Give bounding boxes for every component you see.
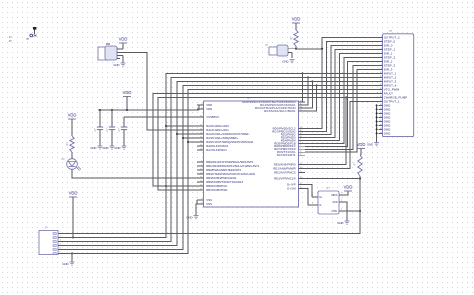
- wire OUTPUT_2 from switch node: [296, 48, 322, 50]
- wire R2 to node: [295, 46, 297, 49]
- svg-text:20: 20: [380, 112, 382, 114]
- svg-text:4: 4: [60, 244, 61, 246]
- svg-text:16: 16: [300, 183, 302, 185]
- svg-text:37: 37: [300, 109, 302, 111]
- svg-text:5: 5: [341, 209, 342, 211]
- svg-text:CTRL: CTRL: [332, 211, 339, 213]
- svg-text:17: 17: [380, 100, 382, 102]
- svg-text:14: 14: [380, 88, 382, 90]
- node RA branch junction 142: [187, 141, 189, 143]
- ground X1: [121, 62, 126, 64]
- wire RA branch at 126: [166, 125, 197, 127]
- power VDD rail symbol: [123, 96, 131, 98]
- power VDD for J1: [69, 196, 77, 198]
- wire MCLR/VPP net (J1 pin1): [63, 179, 360, 234]
- wire VDD stem to rail: [126, 97, 128, 111]
- power VDD for S1 pullup: [292, 22, 300, 24]
- wire U2 GND: [345, 202, 347, 221]
- svg-text:RA2/C2INA+/AN2/DACOUT/VREF-: RA2/C2INA+/AN2/DACOUT/VREF-: [206, 132, 249, 136]
- capacitor C1: [99, 110, 101, 127]
- wire VSS pins tie: [196, 200, 198, 204]
- ground J2 GND bus: [374, 142, 379, 144]
- op-amp U1 microcontroller: [204, 101, 299, 207]
- wire VDD to R1: [360, 149, 362, 155]
- svg-text:38: 38: [300, 127, 302, 129]
- wire INPUT tap net 3: [305, 81, 312, 108]
- wire INPUT tap net 2: [305, 77, 308, 105]
- wire VBUS to VDD: [345, 191, 348, 195]
- svg-text:21: 21: [200, 132, 202, 134]
- svg-text:10: 10: [380, 72, 382, 74]
- svg-text:VSS: VSS: [206, 202, 212, 206]
- wire INPUT tap net 1: [303, 73, 306, 102]
- ground C3: [122, 145, 127, 147]
- node PGC/ICSP junction: [165, 185, 167, 187]
- ground C2: [110, 145, 115, 147]
- svg-text:2: 2: [381, 40, 382, 42]
- svg-text:1: 1: [60, 232, 61, 234]
- svg-text:39: 39: [300, 130, 302, 132]
- power VDD for R1 pullup: [357, 148, 365, 150]
- wire D+ net: [305, 185, 312, 198]
- svg-text:24: 24: [200, 140, 202, 142]
- svg-text:19: 19: [200, 124, 202, 126]
- wire R3 to LED: [71, 152, 73, 159]
- svg-text:RE2/AN7/PMCS: RE2/AN7/PMCS: [274, 170, 296, 174]
- node MCLR pullup: [359, 178, 361, 180]
- svg-text:25: 25: [380, 132, 382, 134]
- node INPUT junction 3: [311, 80, 313, 82]
- svg-text:19: 19: [380, 108, 382, 110]
- wire STEP/DIR fan net 6: [305, 61, 379, 146]
- svg-text:RA1/C12IN1-/AN1: RA1/C12IN1-/AN1: [206, 128, 229, 132]
- svg-text:16: 16: [380, 96, 382, 98]
- transistor S1 pushbutton: [269, 47, 283, 55]
- wire STEP/DIR fan net 5: [305, 57, 379, 143]
- svg-text:3: 3: [60, 240, 61, 242]
- svg-text:15: 15: [380, 92, 382, 94]
- node RA branch junction 138: [182, 137, 184, 139]
- svg-text:RE0/AN5/PMRD: RE0/AN5/PMRD: [274, 162, 296, 166]
- svg-text:RE3/VPP/MCLR: RE3/VPP/MCLR: [274, 176, 296, 180]
- wire VDD to J1 pin2: [72, 197, 74, 238]
- node RA branch junction 134: [176, 133, 178, 135]
- svg-text:VDD: VDD: [123, 90, 132, 95]
- svg-text:35: 35: [300, 103, 302, 105]
- svg-text:26: 26: [300, 167, 302, 169]
- wire X1 GND: [122, 56, 124, 64]
- svg-text:12: 12: [380, 80, 382, 82]
- svg-text:40: 40: [300, 133, 302, 135]
- svg-text:VUSB3V3: VUSB3V3: [206, 115, 219, 119]
- svg-text:VDD: VDD: [69, 190, 78, 195]
- connector J1: [39, 231, 58, 255]
- wire GND bus of J2: [376, 105, 378, 142]
- svg-text:15: 15: [300, 187, 302, 189]
- ground U1 VSS: [194, 215, 199, 217]
- node OUTPUT_2 junction: [321, 48, 323, 50]
- svg-text:RB2/PMA/AN8/CTED1/INT2: RB2/PMA/AN8/CTED1/INT2: [206, 168, 241, 172]
- wire STEP/DIR fan net 8: [305, 69, 379, 152]
- svg-text:VDD: VDD: [344, 184, 353, 189]
- svg-text:GND: GND: [113, 63, 119, 67]
- wire STEP/DIR fan net 4: [305, 53, 379, 140]
- capacitor C2: [111, 110, 113, 127]
- svg-text:18: 18: [300, 177, 302, 179]
- svg-text:GND: GND: [367, 143, 373, 147]
- wire RA branch at 134: [177, 133, 197, 135]
- svg-text:36: 36: [300, 106, 302, 108]
- svg-text:RB1/AN10/PRG/SCK1/SCL1/C12IN3-: RB1/AN10/PRG/SCK1/SCL1/C12IN3-/INT1: [206, 164, 260, 168]
- svg-text:25: 25: [300, 163, 302, 165]
- svg-text:41: 41: [300, 136, 302, 138]
- node RA branch junction 126: [165, 125, 167, 127]
- resistor R2: [294, 30, 298, 46]
- svg-text:RA6/CLKO/OSC2: RA6/CLKO/OSC2: [206, 144, 228, 148]
- svg-text:22: 22: [200, 136, 202, 138]
- svg-text:VBUS: VBUS: [331, 195, 338, 197]
- svg-text:32: 32: [300, 100, 302, 102]
- svg-text:3: 3: [300, 142, 301, 144]
- wire STEP/DIR fan net 1: [305, 41, 379, 131]
- connector J2: [383, 34, 414, 137]
- svg-text:15: 15: [200, 180, 202, 182]
- svg-text:16: 16: [200, 184, 202, 186]
- svg-text:7: 7: [381, 60, 382, 62]
- wire INPUT net 5: [63, 89, 379, 253]
- svg-text:21: 21: [380, 116, 382, 118]
- resistor R1: [358, 155, 362, 176]
- svg-text:RB4/IOCB4/PMD1/AN11: RB4/IOCB4/PMD1/AN11: [206, 176, 237, 180]
- op-amp U2 USB transceiver: [318, 191, 339, 214]
- node rail-C1: [99, 109, 101, 111]
- wire STEP/DIR fan net 3: [305, 49, 379, 137]
- wire S1 to ground: [291, 53, 293, 59]
- wire INPUT net 3: [63, 81, 379, 245]
- svg-text:VDD: VDD: [206, 103, 212, 107]
- svg-text:J?: J?: [389, 29, 392, 33]
- svg-text:6: 6: [381, 56, 382, 58]
- svg-text:GND: GND: [62, 262, 68, 266]
- wire STEP/DIR fan net 7: [305, 65, 379, 149]
- svg-text:VDD: VDD: [206, 107, 212, 111]
- node J1 pin2 VDD: [72, 237, 74, 239]
- svg-text:RB5/IOCB5/T3CKI/T1G/AN13: RB5/IOCB5/T3CKI/T1G/AN13: [206, 180, 243, 184]
- svg-text:3: 3: [381, 44, 382, 46]
- svg-text:1: 1: [381, 36, 382, 38]
- svg-text:D-: D-: [320, 205, 323, 207]
- svg-text:U?: U?: [326, 186, 330, 190]
- svg-text:4: 4: [312, 203, 313, 205]
- node rail-C2: [111, 109, 113, 111]
- wire OUTPUT_1 net (RE1): [305, 101, 379, 168]
- node INPUT junction 1: [302, 72, 304, 74]
- wire STEP/DIR fan net 0: [305, 37, 379, 128]
- svg-text:VSS: VSS: [206, 198, 212, 202]
- wire RA branch at 138: [183, 137, 197, 139]
- svg-text:9: 9: [381, 68, 382, 70]
- svg-text:30: 30: [200, 148, 202, 150]
- svg-text:D-/VM: D-/VM: [287, 186, 296, 190]
- svg-text:27: 27: [300, 171, 302, 173]
- svg-text:25: 25: [300, 151, 302, 153]
- ground U2: [345, 220, 350, 222]
- wire FAULT net (RB6): [153, 93, 379, 186]
- svg-text:26: 26: [300, 154, 302, 156]
- node CHARGE_PUMP junction: [345, 96, 347, 98]
- svg-text:20: 20: [200, 128, 202, 130]
- svg-text:RE1/AN6/PMWR: RE1/AN6/PMWR: [273, 166, 295, 170]
- power VDD for X1: [119, 42, 127, 44]
- svg-text:GND: GND: [282, 60, 288, 64]
- LED D1: [67, 159, 78, 170]
- node J1 pin6 GND: [71, 253, 73, 255]
- svg-text:5: 5: [60, 248, 61, 250]
- svg-text:11: 11: [200, 172, 202, 174]
- svg-text:5: 5: [201, 198, 202, 200]
- capacitor C3: [124, 116, 197, 118]
- wire MCLR to MCU: [305, 178, 360, 180]
- wire INPUT net 1: [63, 73, 379, 237]
- svg-text:11: 11: [380, 76, 382, 78]
- svg-text:10: 10: [200, 168, 202, 170]
- wire U2 CTRL to MCLR net: [345, 210, 360, 212]
- wire RA branch at 142: [188, 141, 197, 143]
- svg-text:4: 4: [381, 48, 382, 50]
- svg-text:14: 14: [200, 115, 202, 117]
- svg-text:4: 4: [300, 145, 301, 147]
- wire X1 VDD: [122, 43, 124, 49]
- svg-text:2: 2: [300, 139, 301, 141]
- svg-text:RC3/SCK1/SCL1/SDO1: RC3/SCK1/SCL1/SDO1: [264, 109, 296, 113]
- svg-text:9: 9: [201, 164, 202, 166]
- wire VDD to R3: [71, 119, 73, 136]
- wire INPUT net 4: [63, 85, 379, 249]
- svg-text:RB3/CTED2/SDO2/CCP2/C12IN2-/AN: RB3/CTED2/SDO2/CCP2/C12IN2-/AN9: [206, 172, 255, 176]
- svg-text:RA0/C12IN0-/AN0: RA0/C12IN0-/AN0: [206, 124, 229, 128]
- svg-text:GND: GND: [186, 216, 192, 220]
- wire VDD to R2: [295, 23, 297, 30]
- wire R1 to node: [359, 176, 361, 179]
- svg-text:8: 8: [201, 160, 202, 162]
- node INPUT junction 2: [307, 76, 309, 78]
- svg-text:17: 17: [200, 188, 202, 190]
- svg-text:GND: GND: [384, 131, 391, 135]
- wire X1 clock out to RA1: [117, 53, 197, 131]
- svg-text:RA7/CLKI/OSC1: RA7/CLKI/OSC1: [206, 148, 227, 152]
- svg-text:RC7/RX1/DT1: RC7/RX1/DT1: [277, 153, 296, 157]
- svg-text:24: 24: [380, 128, 382, 130]
- svg-text:GND: GND: [114, 146, 120, 150]
- svg-text:RB7/IOCB7/PGD: RB7/IOCB7/PGD: [206, 188, 227, 192]
- svg-text:8: 8: [381, 64, 382, 66]
- svg-text:2: 2: [341, 200, 342, 202]
- svg-text:VDD: VDD: [68, 112, 77, 117]
- wire D- net: [305, 189, 312, 206]
- svg-text:RA5/C1OUT/SRNQ/SS1/HLVDIN/AN4: RA5/C1OUT/SRNQ/SS1/HLVDIN/AN4: [206, 140, 253, 144]
- ground J1: [70, 261, 75, 263]
- node USB CTRL tap: [359, 210, 361, 212]
- wire INPUT net 2: [63, 77, 379, 241]
- ground S1: [290, 59, 295, 61]
- svg-text:RB6/IOCB6/PGC: RB6/IOCB6/PGC: [206, 184, 227, 188]
- svg-text:2: 2: [60, 236, 61, 238]
- svg-text:31: 31: [200, 144, 202, 146]
- wire CHARGE_PUMP net (RB7): [158, 97, 379, 190]
- svg-text:22: 22: [380, 120, 382, 122]
- svg-text:VDD: VDD: [357, 142, 366, 147]
- wire CHARGE_PUMP vertical (RE0): [305, 97, 346, 164]
- wire STEP/DIR fan net 2: [305, 45, 379, 134]
- svg-text:14: 14: [200, 176, 202, 178]
- svg-text:U?: U?: [247, 96, 251, 100]
- wire INPUT tap net 4: [305, 85, 317, 111]
- svg-text:23: 23: [380, 124, 382, 126]
- svg-text:VDD: VDD: [119, 36, 128, 41]
- oscillator X1: [98, 47, 108, 60]
- svg-text:6: 6: [201, 202, 202, 204]
- power VDD for U2: [344, 190, 352, 192]
- svg-text:GND: GND: [332, 202, 337, 204]
- node switch/resistor junction: [295, 48, 297, 50]
- svg-text:RA3/C1INA+/SRQ/VREF+: RA3/C1INA+/SRQ/VREF+: [206, 136, 239, 140]
- svg-text:18: 18: [380, 104, 382, 106]
- svg-text:GND: GND: [337, 221, 343, 225]
- node INPUT junction 4: [316, 84, 318, 86]
- svg-text:6: 6: [60, 252, 61, 254]
- svg-text:1: 1: [341, 193, 342, 195]
- svg-text:5: 5: [381, 52, 382, 54]
- node rail-VDD: [126, 109, 128, 111]
- svg-text:GND: GND: [102, 146, 108, 150]
- wire LED to RB4: [72, 169, 197, 178]
- wire VDD rail: [98, 109, 199, 111]
- svg-text:VDD: VDD: [292, 16, 301, 21]
- svg-text:D+/VP: D+/VP: [287, 182, 296, 186]
- power VDD for LED: [68, 118, 76, 120]
- svg-text:13: 13: [380, 84, 382, 86]
- wire J1 pin6 to ground: [71, 254, 73, 263]
- svg-text:RB0/AN12/FLT0/SRI/SDA1/SDI1/IN: RB0/AN12/FLT0/SRI/SDA1/SDI1/INT0: [206, 160, 253, 164]
- ground C1: [98, 145, 103, 147]
- svg-text:GND: GND: [90, 146, 96, 150]
- resistor R3: [70, 136, 74, 152]
- node TP1 test point: [33, 27, 36, 30]
- svg-text:5: 5: [300, 148, 301, 150]
